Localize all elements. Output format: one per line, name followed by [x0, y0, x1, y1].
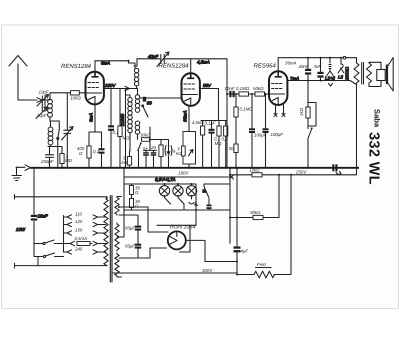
Saba 332WL text [366, 109, 382, 185]
50k resistor [253, 86, 265, 96]
svg-text:70pF: 70pF [37, 113, 47, 118]
right line down to 250V [356, 85, 358, 175]
svg-text:20: 20 [150, 145, 156, 150]
svg-text:6mA: 6mA [89, 113, 94, 122]
wire plate feed drop [226, 59, 228, 168]
capacitor 0,1 cathode [93, 132, 105, 168]
screen divider network (4,5k / 0,1uF / 0,1M / 0,2M) [201, 121, 227, 168]
svg-text:100μF: 100μF [254, 133, 267, 138]
svg-text:L1+2: L1+2 [325, 76, 335, 81]
capacitor 70pF trimmer [36, 105, 48, 119]
resistor screen feed [118, 89, 130, 168]
tube RENS1284 no2 [159, 59, 200, 106]
100uF caps [249, 94, 283, 168]
svg-text:0,1: 0,1 [93, 149, 100, 154]
svg-text:100Ω: 100Ω [70, 96, 81, 101]
0,1M resistor [236, 86, 250, 96]
svg-text:4,5mA: 4,5mA [197, 60, 210, 65]
svg-text:7mA: 7mA [290, 76, 299, 81]
boxed trimmer bottom [176, 132, 196, 165]
svg-text:10pF: 10pF [39, 90, 49, 95]
svg-text:10W: 10W [16, 227, 26, 232]
tube RENS1284 no1 [61, 63, 104, 105]
svg-text:1kΩ: 1kΩ [299, 107, 304, 116]
mains switches [15, 240, 108, 268]
svg-text:30kΩ: 30kΩ [140, 133, 151, 138]
svg-text:3mA: 3mA [101, 61, 110, 66]
svg-text:6,3V≈0,7A: 6,3V≈0,7A [155, 177, 176, 182]
12k resistor 250V line [230, 168, 356, 177]
svg-text:RENS1284: RENS1284 [61, 63, 92, 70]
svg-text:180V: 180V [178, 171, 189, 176]
jacks L1+2 L2 [325, 58, 350, 86]
svg-text:250pF: 250pF [40, 159, 54, 164]
wire HT secondary to rectifier anodes [113, 207, 237, 273]
30k resistor line [230, 175, 279, 220]
svg-text:4μF: 4μF [241, 249, 249, 254]
band switch S2 + pad 30 [140, 97, 182, 117]
svg-text:0,1MΩ: 0,1MΩ [236, 86, 250, 91]
output transformer [354, 59, 381, 87]
anode top line right [278, 56, 356, 71]
rectifier RGN1064 [157, 224, 237, 261]
wire grid to tube1 [50, 92, 86, 94]
return line 7mA [288, 76, 357, 85]
svg-text:30kΩ: 30kΩ [250, 210, 261, 215]
caps 40nF 3nF [299, 58, 324, 81]
svg-text:50μF: 50μF [125, 226, 135, 231]
tube RES964 [254, 61, 297, 106]
svg-text:56V: 56V [203, 83, 212, 88]
svg-text:190V: 190V [105, 83, 116, 88]
anode line 3mA [95, 61, 129, 73]
0,1M vertical resistor [229, 94, 254, 168]
wire verticals to power supply [196, 168, 230, 244]
svg-text:250V: 250V [295, 170, 307, 175]
tuning variable cap [62, 93, 74, 168]
feedthrough capacitor + hook on bus [332, 164, 341, 174]
RES964 pins XX [274, 105, 285, 117]
svg-text:100μF: 100μF [271, 132, 284, 137]
speaker [377, 58, 393, 92]
10nF cap [225, 86, 235, 97]
antenna coil [48, 93, 53, 121]
svg-text:MΩ: MΩ [215, 141, 223, 146]
tube2 cathode [183, 106, 190, 168]
lamps [159, 184, 196, 196]
bus left stub + arrow [16, 165, 31, 171]
ground bus [30, 167, 359, 169]
svg-text:0,1μF: 0,1μF [205, 121, 217, 126]
4uF cap [234, 168, 249, 275]
svg-text:RENS1284: RENS1284 [159, 63, 190, 70]
svg-text:MΩ: MΩ [65, 158, 73, 163]
svg-text:30: 30 [147, 101, 152, 106]
voltage selector [64, 215, 107, 254]
svg-text:2000Ω: 2000Ω [345, 66, 350, 81]
wire coupling line to RES964 grid [227, 93, 269, 95]
capacitor 10pF trimmer [37, 90, 50, 107]
svg-text:50μF: 50μF [125, 244, 135, 249]
resistor 100 Ohm grid [70, 91, 81, 101]
cathode down [89, 105, 96, 133]
svg-text:50kΩ: 50kΩ [253, 86, 264, 91]
band switch S1 [50, 121, 59, 168]
resistor + trimmer 7a [159, 140, 176, 168]
IF coil set [120, 61, 140, 168]
svg-text:Saba: Saba [373, 109, 382, 128]
svg-text:0,1MΩ: 0,1MΩ [240, 107, 254, 112]
tone switch + cap right [202, 184, 230, 210]
svg-text:40nF: 40nF [299, 64, 309, 69]
lamp rails [117, 177, 230, 237]
resistor 30k h [140, 133, 161, 142]
svg-text:kΩ: kΩ [176, 151, 182, 156]
resistor 400 Ohm [77, 132, 102, 168]
caps 5+5 cluster [143, 127, 157, 168]
svg-text:4,5kΩ: 4,5kΩ [192, 120, 204, 125]
svg-text:332 WL: 332 WL [366, 132, 382, 185]
svg-text:3nF: 3nF [314, 64, 322, 69]
coil L antenna secondary [48, 121, 62, 147]
svg-text:36mA: 36mA [285, 61, 297, 66]
screen wire + cap 0,1uF [108, 89, 119, 168]
switch + 5k resistor [122, 142, 142, 167]
junction dots other [118, 57, 342, 276]
svg-text:240: 240 [74, 247, 83, 252]
svg-text:125: 125 [75, 219, 83, 224]
190V line [104, 83, 130, 91]
resistors 30 Ohm [130, 184, 141, 210]
ground symbol [12, 167, 22, 180]
svg-text:150: 150 [75, 228, 83, 233]
heater line [124, 168, 234, 182]
svg-text:kΩ: kΩ [122, 160, 128, 165]
mains input wires + capacitor 16nF [15, 168, 108, 244]
power transformer [104, 196, 122, 283]
svg-text:110: 110 [75, 212, 83, 217]
lamp switches [165, 184, 198, 210]
capacitor 250pF [40, 147, 54, 168]
svg-text:L2: L2 [338, 75, 343, 80]
svg-text:21860: 21860 [120, 113, 125, 127]
svg-text:40pF: 40pF [148, 54, 158, 59]
resistor 1MOhm [60, 147, 73, 168]
svg-text:16nF: 16nF [38, 214, 48, 219]
svg-text:300V: 300V [202, 268, 213, 273]
svg-text:30: 30 [229, 146, 234, 151]
junction dots bus [33, 167, 309, 169]
RES964 cathode resistor right [299, 81, 316, 168]
plate line 4,5mA with trimmer 40pF [134, 52, 227, 67]
svg-text:MΩ: MΩ [123, 136, 131, 141]
svg-text:0,5/1A: 0,5/1A [75, 236, 88, 241]
svg-text:12kΩ: 12kΩ [249, 168, 260, 173]
svg-text:10nF: 10nF [225, 86, 235, 91]
svg-text:Feld: Feld [257, 262, 266, 267]
Feld field coil [237, 175, 291, 278]
svg-text:RES964: RES964 [254, 62, 277, 69]
svg-text:65mA: 65mA [183, 110, 188, 122]
50uF caps [119, 215, 150, 258]
antenna [9, 56, 42, 103]
svg-text:5+: 5+ [143, 146, 148, 151]
56V line to rail [200, 83, 219, 121]
